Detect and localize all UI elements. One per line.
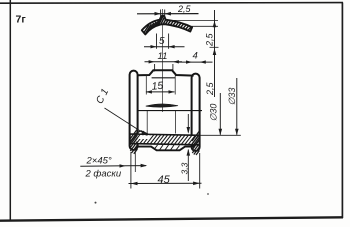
dimension 2,5 (washer neck, top) [137, 4, 199, 19]
svg-text:5: 5 [159, 36, 165, 47]
dimension 11 (boss top) [145, 51, 183, 72]
svg-text:2×45°: 2×45° [86, 156, 112, 167]
main body: left flange rim (stadium) [130, 71, 138, 150]
frame top line [0, 2, 343, 5]
frame left line [9, 0, 11, 221]
hole wall right [174, 76, 176, 95]
chamfer wedge above band (C1) [135, 131, 148, 134]
seated washer (flattened lens) [146, 104, 178, 107]
washer top extension line [166, 19, 218, 21]
lower bar fills (hatch over rims in flange zone) [130, 129, 199, 155]
dimension 5 (washer hole) [144, 34, 185, 49]
counterbore step line [138, 110, 202, 112]
main body: right flange rim (stadium) [192, 74, 200, 151]
svg-text:3,3: 3,3 [180, 162, 190, 174]
svg-text:4: 4 [193, 51, 198, 62]
svg-text:∅33: ∅33 [227, 88, 237, 106]
svg-text:11: 11 [158, 51, 168, 62]
svg-text:2,5: 2,5 [205, 81, 215, 96]
washer hatching [143, 16, 194, 34]
flange hatched band [126, 130, 210, 148]
svg-text:15: 15 [151, 80, 164, 93]
dimension 45 (overall) [129, 152, 202, 189]
svg-text:2 фаски: 2 фаски [85, 169, 122, 180]
speck marks [95, 202, 97, 204]
dimension ∅33 [227, 78, 239, 135]
hub hatching [154, 145, 180, 150]
dimension ∅30 [209, 93, 223, 135]
arrow up to washer top ext [213, 21, 217, 28]
leader 2x45 / 2 фаски [80, 152, 147, 180]
frame right line [341, 3, 343, 219]
svg-text:2,5: 2,5 [205, 32, 215, 47]
centerline axis [162, 9, 164, 112]
white streak in band [139, 135, 151, 139]
svg-text:2,5: 2,5 [177, 4, 192, 14]
bottom profile with hub trapezoid [138, 144, 194, 151]
right stacked dimension line (2,5 / 2,5) [205, 10, 219, 97]
svg-text:45: 45 [158, 174, 171, 186]
flange top extension line (right) [194, 134, 241, 136]
short extension tick [134, 152, 136, 172]
tick at 5-dim level [210, 46, 219, 48]
svg-text:∅30: ∅30 [209, 104, 219, 122]
boss hole line [152, 77, 176, 79]
washer tip extension line [192, 25, 219, 27]
svg-text:7г: 7г [16, 14, 27, 26]
body top outline with raised boss [138, 70, 194, 75]
dimension 15 (hole) [146, 80, 175, 94]
dimension 3,3 (flange thickness) [180, 114, 191, 181]
washer section (curved spring washer) [142, 16, 194, 35]
leader C 1 [94, 87, 147, 136]
dimension 4 (right flange width) [179, 51, 213, 64]
arrow up at 47.3 [213, 48, 217, 55]
hole wall left [145, 76, 147, 95]
frame bottom line [0, 217, 343, 220]
